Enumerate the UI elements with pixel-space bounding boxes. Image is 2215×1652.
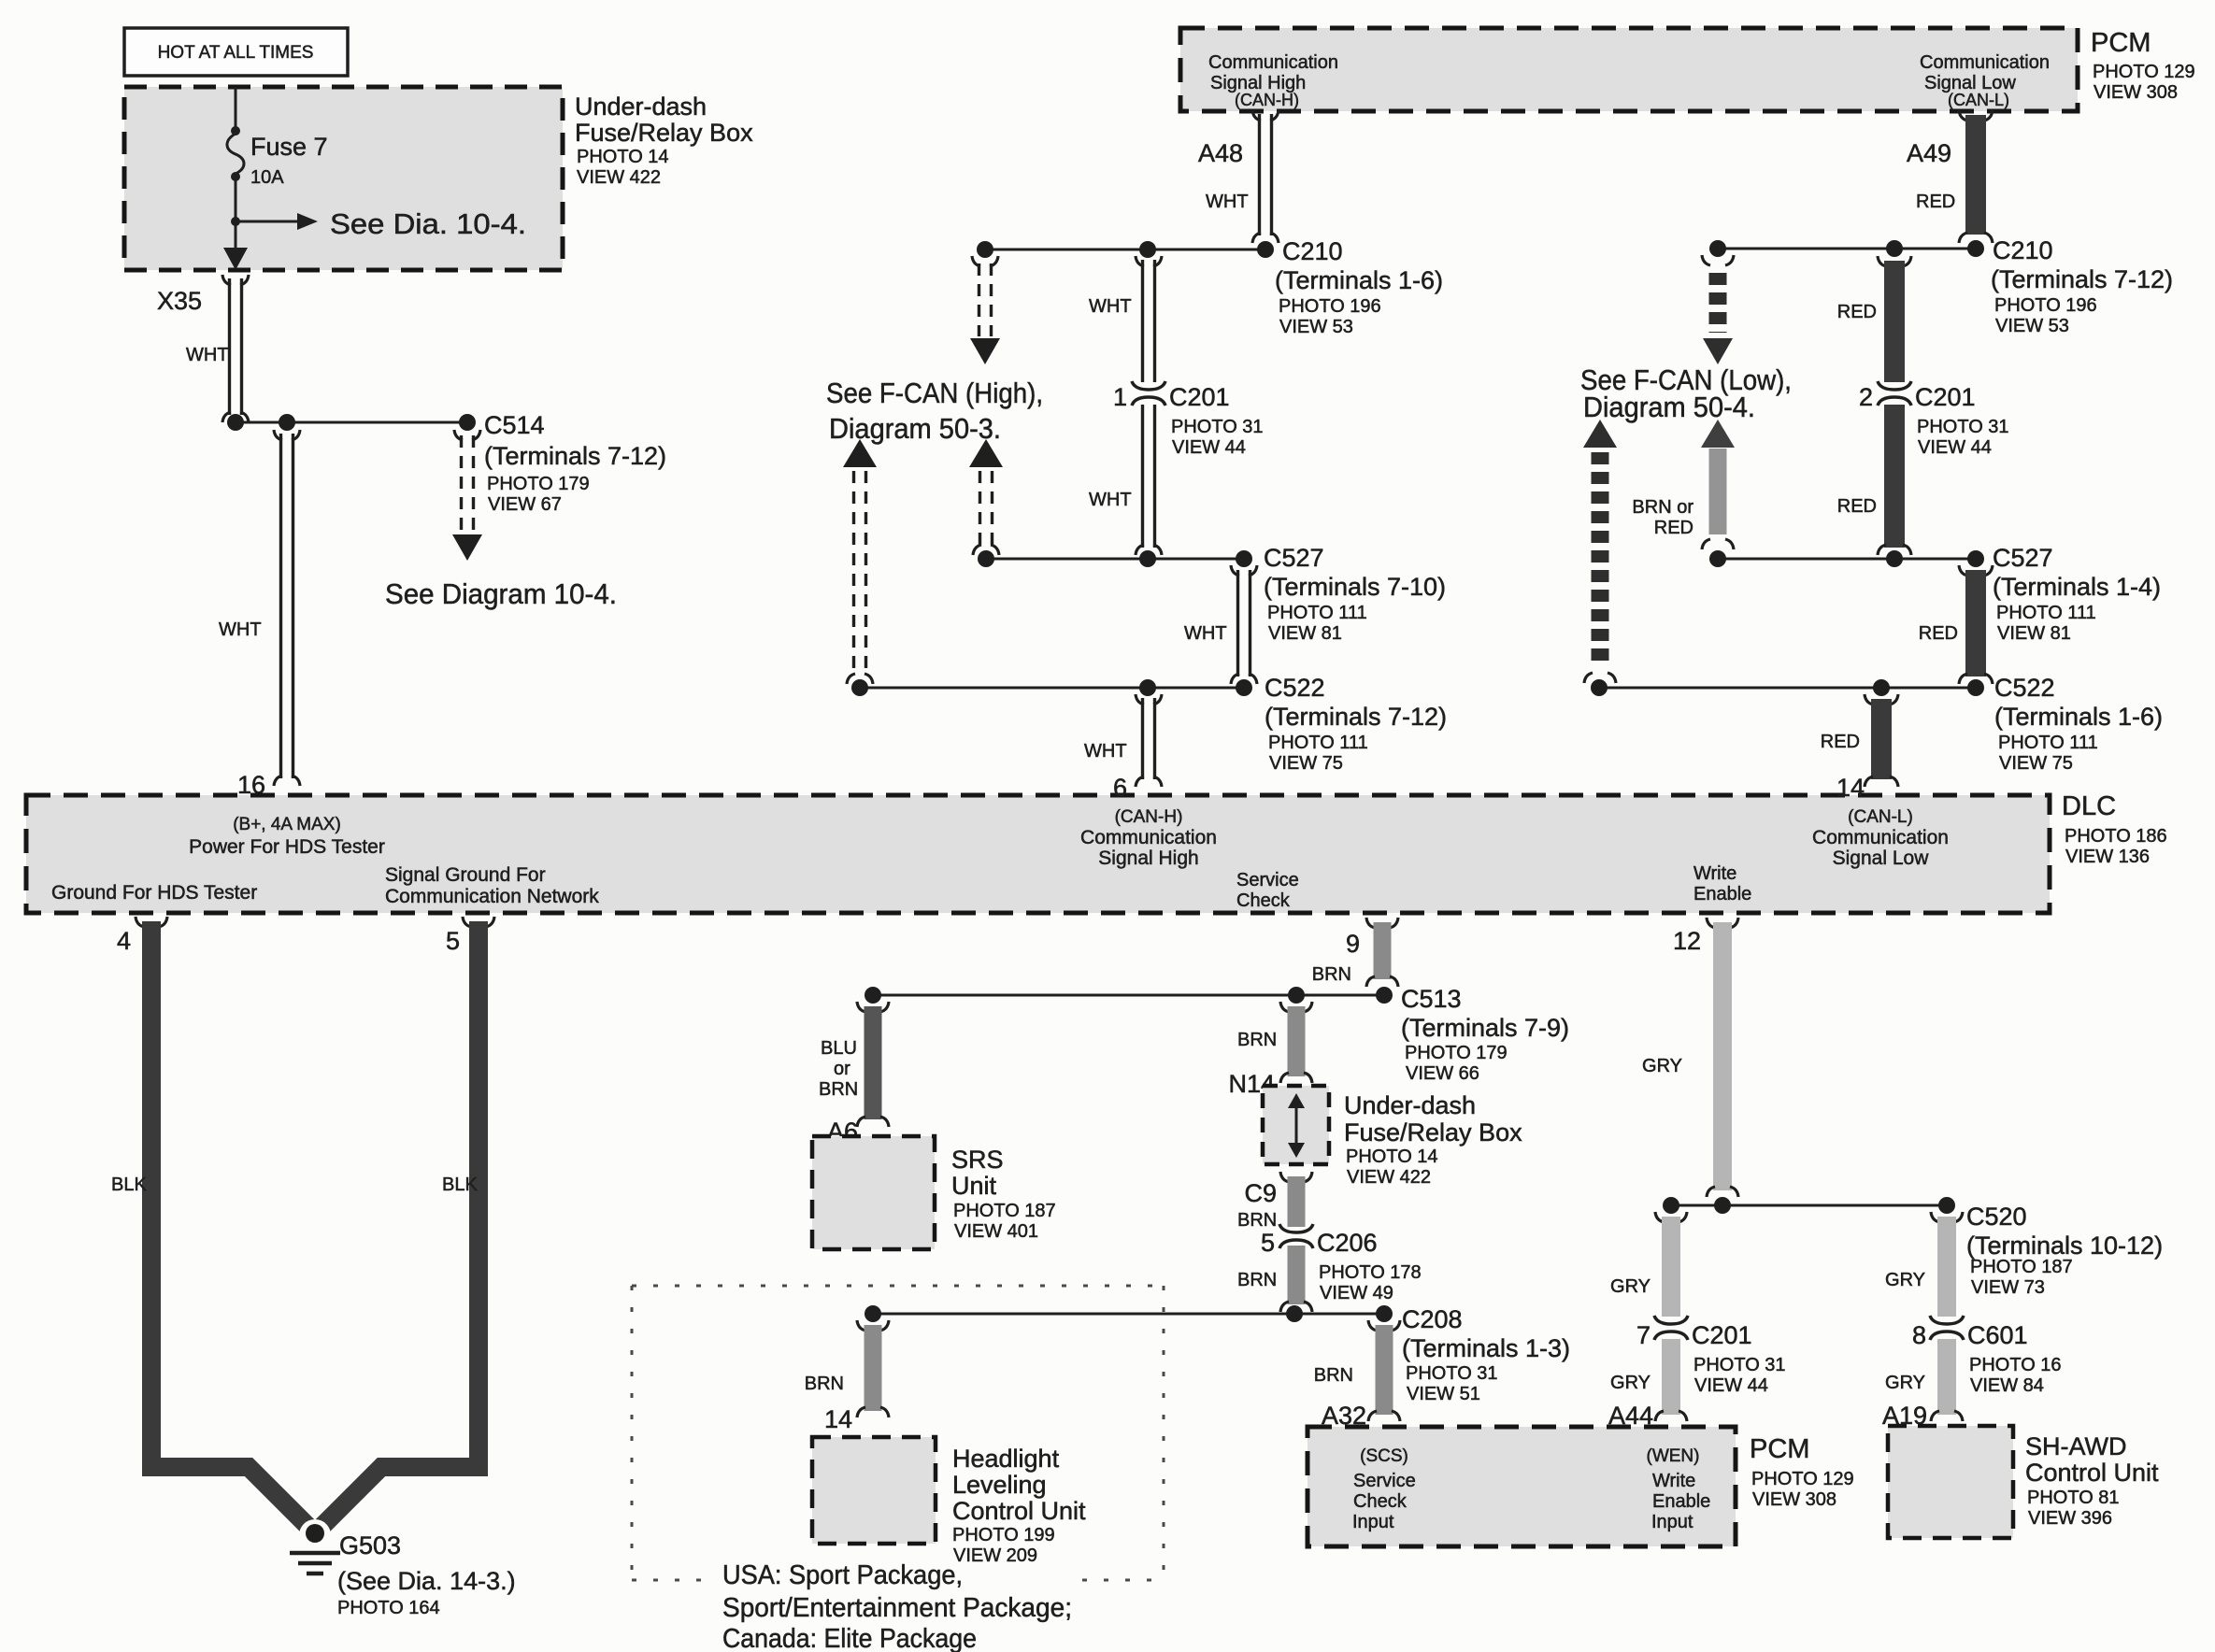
svg-text:(CAN-H): (CAN-H) (1235, 91, 1299, 109)
svg-text:GRY: GRY (1610, 1276, 1651, 1297)
connector C201 pin 2 break (1878, 381, 1911, 390)
svg-text:BRN: BRN (805, 1374, 844, 1394)
svg-text:GRY: GRY (1885, 1270, 1925, 1290)
svg-text:RED: RED (1837, 496, 1877, 517)
svg-text:C201: C201 (1169, 383, 1230, 411)
node junction below X35 (236, 421, 467, 424)
node C522 (Terminals 1-6) line (1599, 687, 1976, 690)
svg-text:10A: 10A (250, 167, 284, 188)
svg-text:VIEW 67: VIEW 67 (488, 494, 562, 515)
svg-text:14: 14 (1836, 774, 1865, 802)
svg-text:Write: Write (1693, 863, 1736, 884)
svg-text:PHOTO 111: PHOTO 111 (1998, 733, 2098, 753)
svg-text:7: 7 (1636, 1321, 1651, 1349)
wire BLK DLC pin5 to G503 (321, 921, 479, 1528)
svg-text:WHT: WHT (1084, 741, 1127, 762)
svg-text:(Terminals 7-12): (Terminals 7-12) (1991, 265, 2173, 293)
svg-text:Input: Input (1352, 1512, 1394, 1532)
svg-text:RED: RED (1837, 302, 1877, 322)
svg-text:A49: A49 (1907, 139, 1951, 167)
wire GRY C201 to PCM A44 (1662, 1339, 1680, 1415)
svg-text:(CAN-L): (CAN-L) (1948, 91, 2009, 109)
svg-text:Enable: Enable (1693, 884, 1751, 904)
svg-text:Communication: Communication (1208, 52, 1338, 73)
node C210 (Terminals 1-6) line (985, 249, 1265, 251)
ground G503 (299, 1519, 331, 1551)
svg-text:VIEW 44: VIEW 44 (1694, 1375, 1768, 1396)
svg-text:(Terminals 7-12): (Terminals 7-12) (1265, 703, 1447, 731)
svg-text:Write: Write (1652, 1471, 1695, 1491)
svg-text:PCM: PCM (1750, 1434, 1809, 1464)
svg-text:or: or (834, 1059, 850, 1079)
node C527 (Terminals 7-10) line (986, 558, 1244, 561)
wire WHT X35 to junction (228, 278, 231, 415)
node C210 (Terminals 7-12) line (1718, 248, 1976, 250)
svg-text:BRN: BRN (1314, 1365, 1353, 1386)
svg-text:C513: C513 (1401, 985, 1462, 1013)
svg-text:PHOTO 14: PHOTO 14 (577, 147, 669, 167)
PCM box (bottom) (1308, 1427, 1736, 1546)
svg-text:Communication: Communication (1920, 52, 2050, 73)
svg-text:SH-AWD: SH-AWD (2025, 1432, 2127, 1460)
PCM box (top) (1180, 28, 2078, 111)
svg-text:C208: C208 (1402, 1305, 1463, 1333)
fuse 7 element (227, 134, 244, 174)
svg-text:VIEW 136: VIEW 136 (2065, 847, 2150, 867)
svg-text:See F-CAN (High),: See F-CAN (High), (826, 377, 1043, 409)
svg-text:VIEW 422: VIEW 422 (1347, 1167, 1431, 1188)
svg-text:C601: C601 (1967, 1321, 2028, 1349)
svg-text:VIEW 308: VIEW 308 (1752, 1489, 1836, 1510)
node fuse output junction (231, 217, 240, 226)
wire BRN C208 to PCM A32 (1368, 1320, 1377, 1331)
svg-text:PHOTO 164: PHOTO 164 (337, 1598, 440, 1618)
svg-text:PHOTO 179: PHOTO 179 (487, 474, 590, 494)
svg-text:Check: Check (1353, 1491, 1408, 1512)
wire BRN C206 to C208 (1288, 1246, 1306, 1304)
svg-text:Service: Service (1236, 870, 1299, 890)
svg-text:VIEW 84: VIEW 84 (1970, 1375, 2044, 1396)
arrow BRN or RED from C527 to F-CAN Low (1701, 420, 1735, 448)
svg-text:Unit: Unit (951, 1172, 997, 1200)
svg-text:See Dia. 10-4.: See Dia. 10-4. (330, 207, 526, 240)
svg-text:Headlight: Headlight (952, 1445, 1060, 1473)
svg-text:1: 1 (1113, 383, 1127, 411)
svg-text:(B+, 4A MAX): (B+, 4A MAX) (233, 815, 341, 834)
svg-text:C9: C9 (1244, 1179, 1277, 1207)
dashed arrow to F-CAN High (972, 256, 980, 266)
svg-text:PHOTO 31: PHOTO 31 (1693, 1355, 1786, 1375)
DLC connector box (26, 795, 2050, 913)
svg-text:Under-dash: Under-dash (575, 93, 707, 121)
svg-text:C206: C206 (1317, 1229, 1378, 1257)
svg-text:(CAN-H): (CAN-H) (1115, 807, 1183, 827)
svg-text:RED: RED (1919, 623, 1958, 644)
svg-text:PHOTO 187: PHOTO 187 (953, 1201, 1056, 1221)
svg-text:Canada: Elite Package: Canada: Elite Package (722, 1624, 977, 1652)
svg-text:PHOTO 187: PHOTO 187 (1970, 1257, 2073, 1277)
svg-text:C514: C514 (484, 411, 545, 439)
svg-text:Input: Input (1651, 1512, 1693, 1532)
svg-text:BLK: BLK (442, 1175, 478, 1195)
svg-text:Leveling: Leveling (952, 1471, 1047, 1499)
dashed arrow to F-CAN Low (1702, 255, 1710, 265)
svg-text:WHT: WHT (219, 619, 262, 640)
svg-text:Enable: Enable (1652, 1491, 1710, 1512)
dashed arrow C514 to Diagram 10-4 (454, 430, 463, 440)
svg-text:Signal Ground For: Signal Ground For (385, 864, 546, 886)
wire WHT junction to DLC pin 16 (274, 430, 282, 440)
svg-text:VIEW 49: VIEW 49 (1320, 1283, 1393, 1303)
wire BRN DLC pin 9 to C513 (1366, 918, 1375, 928)
svg-text:Power For HDS Tester: Power For HDS Tester (189, 836, 385, 858)
svg-text:PHOTO 31: PHOTO 31 (1171, 417, 1264, 437)
svg-text:Check: Check (1236, 890, 1291, 911)
svg-text:VIEW 396: VIEW 396 (2028, 1508, 2112, 1529)
node C208 (Terminals 1-3) line (873, 1313, 1384, 1316)
svg-text:Signal High: Signal High (1098, 847, 1198, 869)
dashed arrow from C522 to F-CAN High (843, 439, 877, 467)
svg-text:C522: C522 (1265, 674, 1325, 702)
svg-text:X35: X35 (157, 287, 202, 315)
wire RED C210 to C201 pin 2 (1878, 256, 1886, 266)
svg-text:PHOTO 129: PHOTO 129 (1751, 1469, 1854, 1489)
under-dash fuse/relay box (small) (1263, 1086, 1329, 1164)
svg-text:C520: C520 (1966, 1203, 2027, 1231)
wire GRY junction to C201 pin 7 (1655, 1212, 1664, 1222)
svg-text:G503: G503 (339, 1531, 401, 1559)
svg-text:PHOTO 111: PHOTO 111 (1996, 603, 2096, 623)
wire GRY C601 to SH-AWD A19 (1937, 1339, 1956, 1415)
fuse 7 terminal dot (231, 172, 240, 181)
svg-text:Fuse/Relay Box: Fuse/Relay Box (575, 119, 753, 147)
svg-text:BLU: BLU (821, 1038, 857, 1059)
svg-text:WHT: WHT (186, 345, 229, 365)
svg-text:DLC: DLC (2062, 791, 2116, 821)
svg-text:Diagram 50-4.: Diagram 50-4. (1583, 391, 1755, 423)
svg-text:Fuse/Relay Box: Fuse/Relay Box (1344, 1118, 1522, 1146)
wire WHT PCM A48 to C210 (1252, 110, 1261, 121)
wire RED C527 to C522 (1959, 565, 1967, 576)
svg-text:Sport/Entertainment Package;: Sport/Entertainment Package; (722, 1593, 1072, 1623)
svg-text:(Terminals 1-4): (Terminals 1-4) (1993, 573, 2161, 601)
svg-text:VIEW 81: VIEW 81 (1997, 623, 2071, 644)
svg-text:VIEW 44: VIEW 44 (1918, 437, 1992, 458)
dashed arrow from C527 to F-CAN High (969, 439, 1003, 467)
svg-text:(Terminals 1-3): (Terminals 1-3) (1402, 1334, 1570, 1362)
svg-text:12: 12 (1673, 927, 1701, 955)
branch arrow to See Dia. 10-4. (236, 221, 305, 223)
node C527 (Terminals 1-4) line (1718, 558, 1976, 561)
svg-text:(CAN-L): (CAN-L) (1848, 807, 1913, 827)
wire fuse to box exit (235, 179, 237, 262)
svg-text:BRN or: BRN or (1632, 497, 1693, 518)
headlight leveling control unit box (812, 1437, 936, 1544)
svg-text:(Terminals 10-12): (Terminals 10-12) (1966, 1232, 2163, 1260)
wire RED PCM A49 to C210 (1959, 110, 1967, 121)
wire WHT C527 to C522 (1231, 565, 1239, 576)
svg-text:VIEW 66: VIEW 66 (1406, 1063, 1479, 1084)
svg-text:Communication: Communication (1812, 827, 1949, 848)
svg-text:Under-dash: Under-dash (1344, 1091, 1476, 1119)
wire WHT C201 to C527 (1141, 405, 1144, 548)
svg-text:Signal Low: Signal Low (1833, 847, 1930, 869)
svg-text:(Terminals 7-12): (Terminals 7-12) (484, 442, 666, 470)
svg-text:WHT: WHT (1089, 490, 1132, 510)
svg-text:PHOTO 16: PHOTO 16 (1969, 1355, 2062, 1375)
svg-text:C522: C522 (1994, 674, 2055, 702)
svg-text:GRY: GRY (1642, 1056, 1682, 1076)
svg-text:VIEW 44: VIEW 44 (1172, 437, 1246, 458)
svg-text:Communication: Communication (1080, 827, 1217, 848)
svg-text:BLK: BLK (111, 1175, 147, 1195)
svg-text:RED: RED (1916, 192, 1955, 212)
svg-text:C210: C210 (1282, 237, 1343, 265)
connector C201 pin 1 break (1132, 381, 1165, 390)
connector C201 pin 7 break (1654, 1316, 1688, 1324)
fuse F7 terminal dot (231, 126, 240, 135)
svg-text:9: 9 (1346, 930, 1360, 958)
svg-text:4: 4 (117, 927, 131, 955)
svg-text:GRY: GRY (1885, 1373, 1925, 1393)
svg-text:WHT: WHT (1184, 623, 1227, 644)
SH-AWD control unit box (1888, 1426, 2013, 1538)
connector C206 pin 5 break (1279, 1224, 1313, 1232)
svg-text:C527: C527 (1993, 544, 2053, 572)
node C522 (Terminals 7-12) line (860, 687, 1244, 690)
svg-text:PHOTO 111: PHOTO 111 (1267, 603, 1367, 623)
svg-text:BRN: BRN (1237, 1210, 1277, 1231)
svg-text:PHOTO 179: PHOTO 179 (1405, 1043, 1508, 1063)
svg-text:C210: C210 (1993, 236, 2053, 264)
svg-text:VIEW 53: VIEW 53 (1279, 317, 1353, 337)
wire BRN C208 to headlight leveling pin 14 (857, 1320, 865, 1331)
svg-text:PHOTO 81: PHOTO 81 (2027, 1488, 2120, 1508)
svg-text:GRY: GRY (1610, 1373, 1651, 1393)
connector C601 pin 8 break (1930, 1316, 1964, 1324)
svg-text:C201: C201 (1692, 1321, 1752, 1349)
svg-text:(Terminals 1-6): (Terminals 1-6) (1994, 703, 2163, 731)
svg-text:PHOTO 31: PHOTO 31 (1406, 1363, 1498, 1384)
svg-text:BRN: BRN (1237, 1030, 1277, 1050)
wire from hot feed to fuse 7 (235, 87, 237, 131)
svg-text:14: 14 (824, 1405, 852, 1433)
svg-text:SRS: SRS (951, 1146, 1004, 1174)
node C520 junction line (1671, 1204, 1947, 1207)
wire WHT C210 to C201 pin 1 (1136, 256, 1144, 266)
wire WHT C522 to DLC pin 6 (1136, 694, 1144, 705)
svg-text:VIEW 51: VIEW 51 (1407, 1384, 1480, 1404)
svg-text:PHOTO 199: PHOTO 199 (952, 1525, 1055, 1545)
svg-text:Control Unit: Control Unit (2025, 1459, 2159, 1487)
svg-text:Control Unit: Control Unit (952, 1497, 1086, 1525)
wire BRN C9 to C206 pin 5 (1280, 1172, 1289, 1182)
svg-text:PHOTO 129: PHOTO 129 (2093, 62, 2195, 82)
svg-text:(SCS): (SCS) (1360, 1446, 1408, 1466)
svg-text:(Terminals 7-10): (Terminals 7-10) (1264, 573, 1446, 601)
label box HOT AT ALL TIMES (124, 28, 348, 76)
svg-text:PCM: PCM (2091, 28, 2151, 58)
svg-text:C527: C527 (1264, 544, 1324, 572)
svg-text:HOT AT ALL TIMES: HOT AT ALL TIMES (158, 43, 314, 63)
wire GRY DLC pin 12 to C520 junction (1707, 918, 1715, 928)
wire BLU or BRN C513 to SRS A6 (857, 1002, 865, 1012)
svg-text:PHOTO 111: PHOTO 111 (1268, 733, 1368, 753)
node C513 (Terminals 7-9) line (873, 994, 1384, 997)
svg-text:(WEN): (WEN) (1647, 1446, 1700, 1466)
svg-text:VIEW 422: VIEW 422 (577, 167, 661, 188)
svg-text:5: 5 (446, 927, 460, 955)
svg-text:BRN: BRN (1237, 1270, 1277, 1290)
svg-text:USA: Sport Package,: USA: Sport Package, (722, 1560, 963, 1590)
svg-text:6: 6 (1113, 774, 1127, 802)
wire BRN C513 to under-dash box N14 (1280, 1002, 1289, 1012)
svg-text:PHOTO 14: PHOTO 14 (1346, 1146, 1438, 1167)
svg-text:PHOTO 178: PHOTO 178 (1319, 1262, 1422, 1283)
svg-text:C201: C201 (1915, 383, 1976, 411)
wire BLK DLC pin4 to G503 (151, 921, 309, 1528)
svg-text:VIEW 209: VIEW 209 (953, 1545, 1037, 1566)
svg-text:VIEW 81: VIEW 81 (1268, 623, 1342, 644)
svg-text:Ground For HDS Tester: Ground For HDS Tester (51, 882, 257, 904)
svg-text:WHT: WHT (1089, 296, 1132, 317)
wire RED C201 to C527 (1884, 405, 1905, 548)
svg-text:VIEW 75: VIEW 75 (1269, 753, 1343, 774)
wire RED C522 to DLC pin 14 (1865, 694, 1873, 705)
double arrow inside fuse box (1295, 1103, 1298, 1149)
SRS unit box (812, 1136, 935, 1249)
svg-text:PHOTO 31: PHOTO 31 (1917, 417, 2009, 437)
svg-text:WHT: WHT (1206, 192, 1249, 212)
dashed arrow from C522 to F-CAN Low (1583, 420, 1617, 448)
svg-text:BRN: BRN (1312, 964, 1351, 985)
svg-text:PHOTO 196: PHOTO 196 (1994, 295, 2097, 316)
svg-text:8: 8 (1912, 1321, 1926, 1349)
svg-text:VIEW 308: VIEW 308 (2094, 82, 2178, 103)
svg-text:VIEW 401: VIEW 401 (954, 1221, 1038, 1242)
svg-text:5: 5 (1261, 1229, 1275, 1257)
wire GRY C520 to C601 pin 8 (1931, 1212, 1939, 1222)
svg-text:(Terminals 1-6): (Terminals 1-6) (1275, 266, 1443, 294)
under-dash fuse/relay box (top) (124, 87, 563, 270)
svg-text:Fuse 7: Fuse 7 (250, 133, 328, 161)
svg-text:Diagram 50-3.: Diagram 50-3. (829, 412, 1001, 445)
svg-text:Communication Network: Communication Network (385, 886, 599, 907)
svg-text:RED: RED (1821, 732, 1860, 752)
svg-text:Service: Service (1353, 1471, 1416, 1491)
svg-text:PHOTO 186: PHOTO 186 (2065, 826, 2167, 847)
svg-text:2: 2 (1859, 383, 1873, 411)
svg-text:VIEW 75: VIEW 75 (1999, 753, 2073, 774)
svg-text:A48: A48 (1198, 139, 1243, 167)
svg-text:RED: RED (1654, 518, 1693, 538)
svg-text:BRN: BRN (819, 1079, 858, 1100)
svg-text:See Diagram 10-4.: See Diagram 10-4. (385, 577, 617, 610)
svg-text:VIEW 73: VIEW 73 (1971, 1277, 2045, 1298)
svg-text:(See Dia. 14-3.): (See Dia. 14-3.) (337, 1567, 516, 1595)
option dotted boundary box (632, 1285, 1164, 1288)
svg-text:(Terminals 7-9): (Terminals 7-9) (1401, 1014, 1569, 1042)
svg-text:PHOTO 196: PHOTO 196 (1279, 296, 1381, 317)
svg-text:VIEW 53: VIEW 53 (1995, 316, 2069, 336)
arrowhead leaving fuse box (223, 248, 248, 270)
